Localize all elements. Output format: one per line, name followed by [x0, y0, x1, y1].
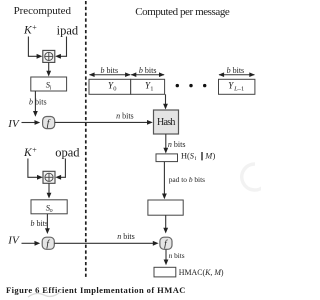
svg-text:): ) — [213, 151, 216, 160]
wire K+ to XOR1 — [28, 37, 42, 59]
wire XOR1 to Si — [46, 63, 51, 77]
svg-text:Hash: Hash — [157, 117, 175, 128]
svg-text:IV: IV — [7, 235, 20, 247]
svg-text:n bits: n bits — [169, 251, 185, 260]
xor XOR2 — [43, 171, 55, 183]
wire f3 to f2, n bits — [54, 232, 158, 246]
wire IV to f3 — [22, 241, 41, 246]
svg-text:–1: –1 — [237, 85, 245, 92]
svg-text:+: + — [32, 23, 37, 32]
dashed separator line — [85, 1, 87, 277]
box HMAC result — [154, 267, 224, 277]
svg-text:b bits: b bits — [29, 98, 47, 107]
function f3 — [42, 237, 54, 250]
label K+ (top) — [23, 23, 37, 37]
box H(Si||M) — [156, 151, 216, 162]
svg-text:pad to b bits: pad to b bits — [169, 175, 205, 184]
svg-text:+: + — [32, 145, 37, 154]
label K+ (bottom) — [23, 145, 37, 159]
wire Si to f1 — [33, 91, 38, 117]
svg-text:n bits: n bits — [168, 140, 186, 149]
svg-text:ipad: ipad — [57, 24, 79, 38]
function f1 — [43, 117, 55, 130]
wire So to f3 — [45, 214, 50, 234]
svg-text:H(: H( — [181, 151, 190, 160]
svg-text:∥: ∥ — [200, 151, 204, 160]
svg-text:n bits: n bits — [116, 112, 134, 121]
svg-text:opad: opad — [55, 146, 80, 160]
wire H box to pad box, pad to b bits — [162, 162, 205, 200]
xor XOR1 — [43, 50, 55, 62]
b-bits span arrow over YL-1 — [219, 66, 255, 77]
svg-text:IV: IV — [7, 118, 20, 130]
box Si — [31, 77, 67, 91]
wire f2 to HMAC box, n bits — [164, 249, 185, 265]
wire f1 to Hash, n bits — [55, 112, 153, 125]
box So — [31, 200, 67, 214]
box padded (empty) — [148, 200, 183, 215]
box Y1 — [131, 79, 165, 94]
b-bits span arrow over Y0 — [89, 66, 131, 77]
watermark arc right edge — [242, 164, 265, 190]
wire K+ to XOR2 — [28, 159, 43, 180]
svg-text:1: 1 — [150, 85, 153, 92]
function f2 — [160, 237, 172, 250]
svg-text:n bits: n bits — [117, 232, 135, 241]
wire IV to f1 — [22, 120, 41, 125]
wire XOR2 to So — [47, 183, 52, 198]
box Hash — [154, 110, 179, 134]
box YL-1 — [219, 79, 255, 94]
wire Y1 to Hash — [163, 94, 168, 109]
svg-text:Computed per message: Computed per message — [135, 6, 230, 18]
svg-text:0: 0 — [113, 85, 116, 92]
wire pad box to f2 — [163, 215, 168, 233]
svg-text:Figure 6 Efficient Implementat: Figure 6 Efficient Implementation of HMA… — [6, 285, 185, 295]
svg-text:b bits: b bits — [101, 66, 119, 75]
svg-text:HMAC(K, M): HMAC(K, M) — [179, 268, 224, 277]
svg-text:b bits: b bits — [31, 219, 49, 228]
wire ipad to XOR1 — [55, 37, 66, 59]
wire Hash to H box, n bits — [163, 134, 185, 154]
wire opad to XOR2 — [55, 159, 65, 180]
watermark swirl — [28, 292, 60, 297]
box Y0 — [89, 79, 131, 94]
svg-text:o: o — [50, 208, 53, 214]
b-bits span arrow over Y1 — [131, 66, 165, 77]
svg-text:b bits: b bits — [139, 66, 157, 75]
ellipsis dots — [176, 84, 207, 87]
svg-text:b bits: b bits — [227, 66, 245, 75]
svg-text:Precomputed: Precomputed — [14, 5, 72, 17]
